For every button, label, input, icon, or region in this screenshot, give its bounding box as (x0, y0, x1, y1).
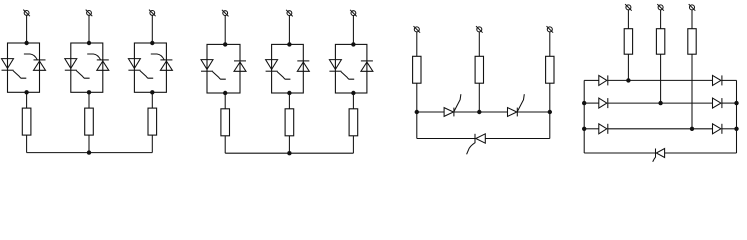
gate thyristor Q3 (467, 143, 475, 154)
phase B2 gate left thyristor (277, 72, 290, 80)
phase A1 terminal (23, 10, 30, 17)
diode D1R (right) (713, 75, 722, 85)
phase B3 diode right (up) (361, 61, 373, 71)
phase A2 thyristor left (down) (65, 59, 77, 71)
phase A2 wire resistor to bus (88, 135, 90, 153)
phase B2 wire box to resistor (288, 93, 290, 109)
phase B3 node dot top (351, 42, 355, 46)
phase A3 wire box to resistor (151, 92, 153, 108)
diode D3R (right) (713, 124, 722, 134)
phase B1 node dot top (223, 42, 227, 46)
wire C1 terminal to resistor (416, 32, 418, 56)
resistor RC1 (413, 56, 421, 83)
phase A2 node dot bottom (87, 90, 91, 94)
phase B3 wire box to resistor (352, 93, 354, 109)
wire C3 terminal to resistor (549, 32, 551, 56)
wire row 2 middle segment (608, 102, 713, 104)
phase B3 wire terminal to box (352, 16, 354, 45)
junction dot bus group 2 (287, 151, 291, 155)
terminal D1 (625, 4, 632, 11)
phase A3 thyristor left (down) (128, 59, 140, 71)
phase B3 resistor (349, 109, 358, 136)
resistor RD2 (656, 29, 664, 55)
wire D2 terminal to resistor (660, 10, 662, 29)
junction dot D2 row 2 (658, 101, 662, 105)
phase B2 box (272, 44, 304, 93)
phase A2 terminal (86, 10, 93, 17)
phase B2 wire terminal to box (288, 16, 290, 45)
phase B1 terminal (222, 10, 229, 17)
wire D3 resistor to row 3 (691, 54, 693, 129)
wire upper rail left (417, 111, 444, 113)
phase A2 thyristor right (up) (97, 60, 109, 70)
phase B1 diode right (up) (234, 61, 246, 71)
phase A2 box (71, 43, 103, 92)
phase A1 wire box to resistor (26, 92, 28, 108)
diode D2L (right) (599, 98, 608, 108)
phase B3 box (335, 44, 367, 93)
phase A3 wire terminal to box (151, 15, 153, 43)
wire row 3 left segment (584, 128, 599, 130)
phase A1 node dot top (24, 41, 28, 45)
gate thyristor Q1 (454, 94, 461, 111)
phase A1 gate left thyristor (13, 71, 26, 79)
resistor RD1 (624, 29, 632, 55)
phase A1 resistor (22, 108, 31, 135)
gate thyristor Q4 (653, 157, 656, 162)
junction dot right bus row 2 (734, 101, 738, 105)
phase B2 diode right (up) (297, 61, 309, 71)
left bus vertical (583, 80, 585, 153)
wire row 2 right segment (722, 102, 737, 104)
thyristor Q1 (right) (444, 108, 454, 117)
wire lower rail left (417, 138, 475, 140)
phase A3 gate left thyristor (140, 71, 153, 79)
junction dot D1 row 1 (626, 78, 630, 82)
phase B1 thyristor left (down) (201, 60, 213, 72)
wire row 1 right segment (722, 79, 737, 81)
phase A1 thyristor left (down) (2, 59, 14, 71)
junction dot C3 upper rail (548, 110, 552, 114)
phase B2 wire resistor to bus (288, 136, 290, 153)
phase B3 wire resistor to bus (352, 136, 354, 153)
phase B1 resistor (221, 109, 230, 136)
phase A2 gate right thyristor (87, 54, 100, 60)
wire C2 resistor to upper rail (478, 83, 480, 112)
wire lower rail right (485, 138, 550, 140)
thyristor Q2 (right) (508, 108, 518, 117)
phase B2 thyristor left (down) (266, 60, 278, 72)
phase B1 node dot bottom (223, 91, 227, 95)
phase A3 resistor (148, 108, 157, 135)
junction dot D3 row 3 (690, 127, 694, 131)
wire C2 terminal to resistor (478, 32, 480, 56)
phase A2 wire box to resistor (88, 92, 90, 108)
wire bottom right segment (665, 152, 737, 154)
phase B3 node dot bottom (351, 91, 355, 95)
junction dot right bus row 3 (734, 127, 738, 131)
terminal C3 (547, 26, 554, 33)
gate thyristor Q2 (517, 94, 524, 111)
phase A1 node dot bottom (24, 90, 28, 94)
phase A3 node dot top (150, 41, 154, 45)
phase A1 wire resistor to bus (26, 135, 28, 153)
phase A3 box (134, 43, 166, 92)
junction dot C1 upper rail (415, 110, 419, 114)
wire D1 terminal to resistor (627, 10, 629, 29)
wire upper rail right (517, 111, 550, 113)
junction dot left bus row 2 (582, 101, 586, 105)
phase A2 resistor (85, 108, 94, 135)
phase A1 gate right thyristor (24, 54, 37, 60)
wire D1 resistor to row 1 (627, 54, 629, 80)
wire row 3 middle segment (608, 128, 713, 130)
phase B2 node dot top (287, 42, 291, 46)
phase A3 node dot bottom (150, 90, 154, 94)
wire bottom left segment (584, 152, 655, 154)
phase B1 gate left thyristor (213, 72, 226, 80)
bottom bus group 1 (27, 152, 153, 154)
wire row 1 left segment (584, 79, 599, 81)
phase A1 wire terminal to box (26, 15, 28, 43)
wire row 2 left segment (584, 102, 599, 104)
thyristor Q4 (left) (656, 149, 665, 158)
wire upper rail middle (454, 111, 508, 113)
phase B2 node dot bottom (287, 91, 291, 95)
wire row 3 right segment (722, 128, 737, 130)
resistor RC3 (546, 56, 554, 83)
terminal C1 (414, 26, 421, 33)
phase B1 wire terminal to box (224, 16, 226, 45)
phase A3 gate right thyristor (151, 54, 164, 60)
phase B1 wire resistor to bus (224, 136, 226, 153)
phase A2 node dot top (87, 41, 91, 45)
phase B2 terminal (286, 10, 293, 17)
thyristor Q3 (left) (475, 134, 485, 143)
bottom bus group 2 (225, 152, 353, 154)
terminal D3 (689, 4, 696, 11)
phase A2 wire terminal to box (88, 15, 90, 43)
resistor RC2 (475, 56, 483, 83)
phase A1 thyristor right (up) (34, 60, 46, 70)
phase B1 box (207, 44, 240, 93)
phase B1 wire box to resistor (224, 93, 226, 109)
right bus vertical (736, 80, 738, 153)
junction dot bus group 1 (87, 150, 91, 154)
diode D2R (right) (713, 98, 722, 108)
terminal C2 (476, 26, 483, 33)
wire row 1 middle segment (608, 79, 713, 81)
phase A2 gate left thyristor (76, 71, 89, 79)
phase B3 thyristor left (down) (329, 60, 341, 72)
phase A3 thyristor right (up) (160, 60, 172, 70)
wire D2 resistor to row 2 (660, 54, 662, 103)
phase A3 wire resistor to bus (151, 135, 153, 153)
diode D3L (right) (599, 124, 608, 134)
diode D1L (right) (599, 75, 608, 85)
phase B3 gate left thyristor (341, 72, 354, 80)
junction dot left bus row 3 (582, 127, 586, 131)
phase A3 terminal (149, 10, 156, 17)
terminal D2 (657, 4, 664, 11)
phase A1 box (8, 43, 40, 92)
resistor RD3 (688, 29, 696, 55)
phase B2 resistor (285, 109, 294, 136)
junction dot C2 upper rail (477, 110, 481, 114)
wire D3 terminal to resistor (691, 10, 693, 29)
wire C1 resistor to lower rail (416, 83, 418, 138)
wire C3 resistor to lower rail (549, 83, 551, 138)
phase B3 terminal (350, 10, 357, 17)
